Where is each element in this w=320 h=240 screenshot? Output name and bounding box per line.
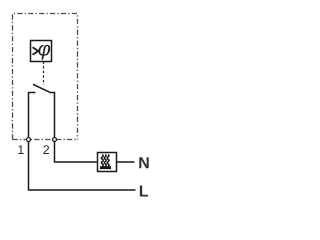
L label	[140, 185, 148, 196]
wire terminal 2 to heater	[55, 142, 97, 162]
switch left contact	[29, 93, 36, 138]
heater E1 box	[98, 153, 117, 172]
terminal 2 label	[43, 145, 49, 154]
wire terminal 1 to L	[29, 142, 136, 190]
switch S1 blade	[33, 84, 50, 92]
heater wavy element b	[104, 155, 106, 167]
terminal 2	[53, 138, 57, 142]
switch right contact	[50, 93, 55, 138]
hygrostat enclosure (dash-dot boundary)	[13, 14, 78, 140]
sensor symbol >phi	[33, 45, 51, 60]
heater wavy element a	[101, 155, 103, 167]
wire heater to N	[117, 161, 135, 163]
N label	[139, 157, 148, 168]
control line (dotted)	[43, 62, 45, 86]
heater wavy element c	[107, 155, 109, 167]
hygrostat sensor box U1	[31, 41, 52, 62]
terminal 1 label	[18, 145, 23, 154]
terminal 1	[27, 138, 31, 142]
heater base bar	[100, 166, 111, 169]
